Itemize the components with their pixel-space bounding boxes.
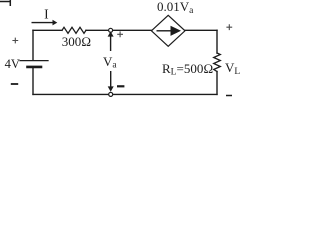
battery plate long [20,60,48,62]
wire: right branch top [216,30,218,53]
Va arrow down [108,71,114,92]
resistor RL zigzag vertical [214,53,221,72]
wire: bottom segment [33,93,217,95]
dependent source diamond [151,15,185,46]
wire: top-left segment [33,29,62,31]
polarity minus (Va) [117,85,124,87]
polarity plus (4V source) [12,38,18,44]
current arrow I [32,20,58,26]
wire: left branch top [32,30,34,59]
svg-text:I: I [44,7,49,22]
wire: right branch bottom [216,72,218,95]
svg-text:4V: 4V [5,57,20,71]
wire: left branch bottom [32,68,34,94]
polarity plus (Va) [117,31,123,37]
Va arrow up [108,31,114,51]
battery plate short thick [28,66,42,69]
svg-text:0.01Va: 0.01Va [157,0,194,16]
node top (Va +) [109,28,113,32]
wire: top right segment [185,29,217,31]
svg-text:RL=500Ω: RL=500Ω [162,61,213,78]
dependent source internal arrow [157,26,182,36]
wire: top middle segment [86,29,152,31]
polarity plus (VL) [226,24,232,30]
polarity minus (VL) [226,95,232,97]
polarity minus (4V source) [11,83,18,85]
node bottom [109,92,113,96]
resistor R 300ohm zigzag [62,27,86,33]
svg-text:300Ω: 300Ω [62,34,92,49]
